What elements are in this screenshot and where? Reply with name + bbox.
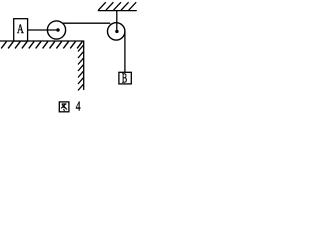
ground hatching: [1, 41, 82, 48]
pulley 1 wheel (at table corner): [47, 21, 65, 39]
pulley 2 axle dot: [115, 30, 118, 33]
svg-text:B: B: [122, 72, 127, 87]
ceiling hatching: [98, 2, 136, 10]
svg-text:4: 4: [76, 99, 81, 114]
wire rope from pulley 1 top to pulley 2: [63, 22, 109, 24]
caption text 4: [76, 99, 81, 114]
block A: [14, 19, 28, 41]
wall (table edge, vertical): [83, 41, 85, 90]
pulley 2 wheel (hung from ceiling): [108, 23, 125, 40]
wire rope from A to pulley 1 axle: [28, 29, 58, 31]
svg-text:A: A: [17, 23, 24, 37]
wall hatching: [78, 45, 83, 90]
ceiling line: [98, 10, 136, 12]
block B: [119, 72, 131, 87]
caption glyph 图 (drawn): [59, 102, 69, 112]
ground (table top surface line): [0, 40, 84, 42]
pulley 1 axle dot: [56, 28, 59, 31]
wire rope from pulley 2 down to block B: [124, 31, 126, 72]
wire suspension from ceiling to pulley 2 axle: [116, 11, 118, 32]
